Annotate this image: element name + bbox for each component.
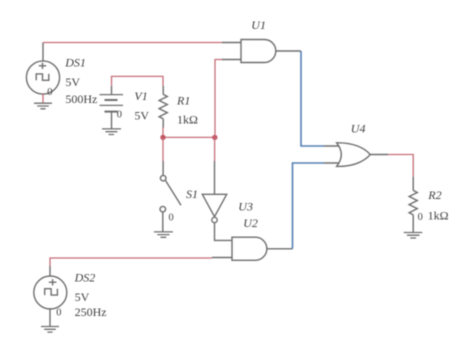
svg-text:U1: U1 (251, 18, 266, 32)
svg-text:U4: U4 (351, 121, 366, 135)
voltage source DS1 (26, 43, 59, 95)
resistor R1 (159, 86, 167, 128)
svg-text:250Hz: 250Hz (75, 305, 107, 319)
svg-text:5V: 5V (75, 290, 90, 304)
svg-text:S1: S1 (186, 187, 198, 201)
wire DS2 to U2 input B (50, 258, 212, 266)
AND gate U1 (222, 40, 301, 63)
svg-text:V1: V1 (134, 89, 147, 103)
resistor R2 (409, 177, 417, 233)
wire U4 output to R2 (388, 155, 413, 177)
wire DS1 to ground (42, 94, 44, 103)
wire U2 output to U4 input B (293, 163, 325, 249)
wire junction B to U3 (214, 137, 216, 161)
svg-text:0: 0 (47, 87, 52, 98)
svg-text:0: 0 (169, 212, 174, 223)
switch S1 (160, 161, 181, 232)
ground S1 (154, 232, 173, 237)
svg-text:DS2: DS2 (74, 271, 96, 285)
inverter U3 (202, 161, 226, 223)
svg-text:R1: R1 (176, 94, 190, 108)
node junction A (160, 135, 165, 140)
wire U1 output to U4 input A (301, 51, 324, 146)
wire U3 output to U2 input A (215, 223, 233, 241)
OR gate U4 (324, 143, 388, 167)
battery V1 (100, 86, 124, 129)
svg-text:1kΩ: 1kΩ (177, 113, 198, 127)
voltage source DS2 (34, 266, 67, 326)
svg-text:R2: R2 (427, 188, 441, 202)
svg-text:0: 0 (117, 109, 122, 120)
svg-text:1kΩ: 1kΩ (428, 208, 449, 222)
wire R1 to junction A (162, 128, 164, 138)
wire junction A to junction B (163, 136, 215, 138)
ground DS1 (34, 103, 52, 109)
svg-text:DS1: DS1 (64, 56, 86, 70)
ground R2 (404, 233, 423, 239)
svg-text:0: 0 (418, 212, 423, 223)
svg-text:0: 0 (56, 307, 61, 318)
AND gate U2 (212, 237, 293, 260)
wire junction B to U1 input B (215, 60, 222, 138)
svg-text:5V: 5V (65, 75, 80, 89)
node junction B (212, 135, 217, 140)
wire V1 to R1 (112, 76, 164, 86)
svg-text:500Hz: 500Hz (65, 92, 97, 106)
wire DS1 to U1 input A (43, 42, 222, 44)
svg-text:5V: 5V (134, 109, 149, 123)
wire junction A to S1 (162, 137, 164, 161)
svg-text:U3: U3 (238, 200, 253, 214)
ground V1 (102, 129, 121, 135)
svg-text:U2: U2 (243, 216, 258, 230)
ground DS2 (41, 327, 59, 333)
